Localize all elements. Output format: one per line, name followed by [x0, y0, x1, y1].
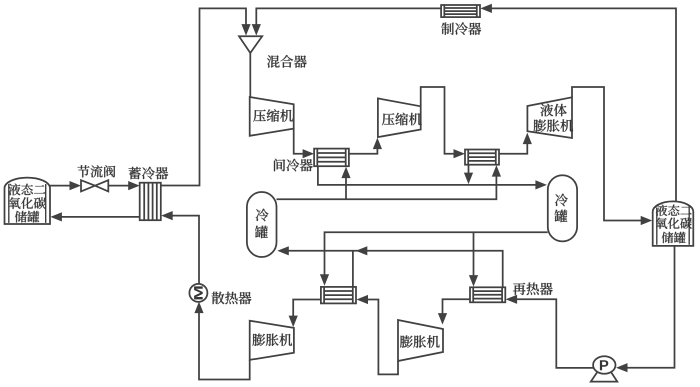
wire: expander 1 outlet down and left to radiator line — [199, 313, 250, 380]
wire: refrigerator outlet over and down into mixer inlet 2 — [256, 8, 441, 25]
wire: storage tank 2 top up and left into refrigerator — [491, 8, 676, 202]
heat exchanger E4: refrigerator (top) — [441, 5, 480, 17]
label: radiator — [212, 292, 252, 305]
cold tank CT2 (right capsule) — [548, 175, 577, 241]
label: regenerator — [129, 167, 169, 180]
tank T2: liquid CO2 storage (right) — [653, 201, 694, 246]
wire: liquid expander outlet to storage tank 2 — [572, 87, 641, 221]
label: intercooler — [274, 159, 313, 172]
wire: expander 2 outlet loop to heat exchanger 3 right port — [367, 300, 398, 375]
label: cold tank 2 char 2 — [555, 210, 568, 222]
wire: reheater left port to expander 2 inlet — [443, 299, 471, 314]
wire: compressor 2 outlet to intercooler 2 — [421, 87, 454, 154]
label: refrigerator — [441, 22, 481, 35]
label: cold tank 1 char 2 — [255, 226, 268, 238]
label: expander 1 — [253, 334, 293, 346]
wire: regenerator bottom left port back to storage tank 1 — [61, 216, 140, 218]
label: tank T2 line 1 — [656, 205, 692, 216]
heat exchanger E6: reheater — [470, 287, 505, 302]
label: throttle valve — [77, 165, 115, 177]
expander X3: liquid expander — [527, 97, 572, 138]
label: expander 2 — [400, 335, 440, 347]
wire: exchanger 3/4 top-right return line to cold tank 1 — [288, 251, 503, 287]
valve V1: throttle valve — [81, 180, 108, 191]
label: cold tank 1 char 1 — [256, 209, 269, 222]
mixer MX1 — [239, 36, 262, 53]
wire: compressor 1 outlet to intercooler 1 — [294, 129, 303, 154]
label: tank T2 line 2 — [656, 218, 692, 229]
label: reheater — [513, 283, 553, 296]
wire: intercooler 2 to liquid expander inlet — [499, 144, 527, 154]
label: tank T1 line 3 — [15, 211, 39, 223]
label: liquid expander line 2 — [534, 119, 574, 131]
compressor K2 — [378, 98, 421, 137]
wire: cold tank 1 outlet bus to exchanger bottom-right ports — [277, 176, 497, 199]
label: compressor 2 — [382, 113, 422, 126]
label: liquid expander line 1 — [540, 104, 566, 117]
wire: storage tank 2 bottom to pump inlet — [627, 246, 675, 368]
wire: intercooler 2 bottom-left drop into bus — [468, 165, 470, 174]
pump P — [591, 373, 618, 382]
expander X2 (bottom middle) — [398, 320, 443, 361]
wire: pump outlet to reheater right port — [516, 299, 593, 368]
motor M: radiator fan motor — [189, 284, 207, 302]
tank T1: liquid CO2 storage (left) — [5, 178, 51, 224]
flow arrow on return line — [356, 246, 368, 255]
label: compressor 1 — [253, 109, 293, 122]
wire: exchanger bottom-left ports bus to cold tank 2 — [318, 166, 536, 185]
wire: heat exchanger 3 left port to expander 1 inlet — [293, 300, 321, 317]
wire: heat exchanger 3 top riser to return line — [352, 251, 354, 287]
label: tank T1 line 2 — [9, 197, 46, 209]
wire: cold tank 2 outlet line to exchanger 3 and 4 tops — [325, 232, 548, 275]
heat exchanger E1: regenerator (cold storage) — [140, 183, 161, 221]
label: mixer — [267, 55, 307, 68]
wire: mixer outlet to compressor 1 inlet — [249, 53, 251, 97]
wire: storage tank 1 outlet to throttle valve — [50, 185, 71, 187]
wire: radiator line from motor up to regenerator right port — [172, 216, 199, 285]
expander X1 (bottom left) — [250, 321, 294, 360]
cold tank CT1 (left capsule) — [247, 192, 277, 257]
wire: branch down into reheater top — [473, 232, 475, 276]
wire: regenerator top outlet up and over into mixer inlet 1 — [161, 8, 246, 185]
label: cold tank 2 char 1 — [555, 194, 568, 207]
wire: branch up into intercooler 1 bottom — [345, 178, 347, 200]
heat exchanger E2: intercooler 1 — [314, 149, 349, 167]
compressor K1 — [250, 97, 294, 136]
wire: throttle valve to regenerator inlet — [108, 185, 128, 187]
wire: intercooler 1 to compressor 2 inlet — [349, 149, 378, 154]
heat exchanger E5 (bottom left, after expanders) — [321, 287, 356, 304]
heat exchanger E3: intercooler 2 — [465, 150, 499, 165]
label: tank T2 line 3 — [662, 232, 686, 243]
label: tank T1 line 1 — [9, 184, 46, 196]
